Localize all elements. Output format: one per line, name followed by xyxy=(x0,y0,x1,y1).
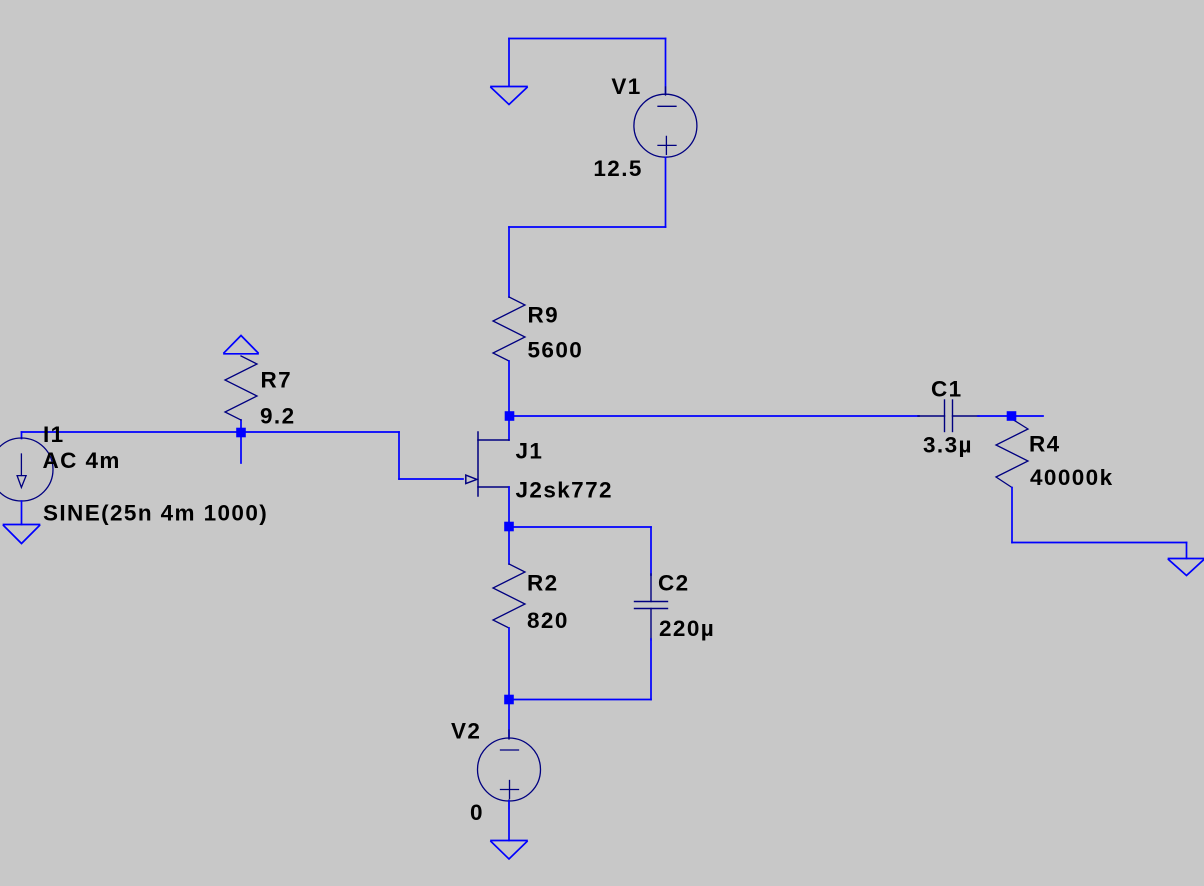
wire R4 bottom lead xyxy=(1011,488,1013,543)
junction drain node xyxy=(505,411,515,421)
wire I1 top lead xyxy=(21,432,23,439)
wire R9 top lead xyxy=(508,227,510,297)
svg-text:12.5: 12.5 xyxy=(593,156,642,181)
svg-text:9.2: 9.2 xyxy=(260,404,295,429)
resistor R9 xyxy=(493,297,525,361)
wire I1 bottom lead xyxy=(21,501,23,525)
svg-text:J1: J1 xyxy=(516,439,544,464)
wire bottom-right horizontal xyxy=(1012,542,1187,544)
svg-text:0: 0 xyxy=(470,800,484,825)
svg-text:R9: R9 xyxy=(528,303,560,328)
wire V1 bottom lead xyxy=(665,157,667,227)
svg-text:J2sk772: J2sk772 xyxy=(516,477,613,502)
ground top-left xyxy=(491,87,527,105)
wire C1 right to stub xyxy=(978,415,1043,417)
svg-text:40000k: 40000k xyxy=(1030,465,1113,490)
svg-text:C1: C1 xyxy=(931,377,963,402)
wire JFET drain vertical xyxy=(508,416,510,440)
svg-text:220µ: 220µ xyxy=(659,616,715,641)
svg-text:V1: V1 xyxy=(611,74,641,99)
resistor R4 xyxy=(996,419,1028,488)
svg-text:V2: V2 xyxy=(451,719,481,744)
wire R9 bottom lead xyxy=(508,361,510,416)
wire drain node horizontal xyxy=(509,415,919,417)
wire V1 to R9 horizontal xyxy=(509,226,666,228)
wire V2 top lead xyxy=(508,700,510,739)
resistor R7 xyxy=(225,356,257,420)
resistor R2 xyxy=(493,564,525,628)
wire right ground drop xyxy=(1186,543,1188,559)
svg-text:R2: R2 xyxy=(527,571,559,596)
svg-text:5600: 5600 xyxy=(528,338,584,363)
wire JFET source vertical xyxy=(508,487,510,527)
transistor J1 xyxy=(466,432,509,496)
svg-text:820: 820 xyxy=(527,608,569,633)
svg-text:I1: I1 xyxy=(43,422,65,447)
svg-text:R7: R7 xyxy=(261,368,293,393)
capacitor C1 xyxy=(918,400,979,432)
wire C2 bottom lead xyxy=(650,639,652,700)
svg-text:SINE(25n 4m 1000): SINE(25n 4m 1000) xyxy=(43,501,268,526)
ground under I1 xyxy=(4,525,40,544)
junction R2-C2-V2 node xyxy=(504,695,514,705)
svg-text:R4: R4 xyxy=(1029,432,1061,457)
wire top horizontal xyxy=(509,38,666,40)
junction C1-R4 node xyxy=(1007,411,1017,421)
wire V2 bottom lead xyxy=(508,801,510,841)
wire source node to C2 horizontal xyxy=(509,526,651,528)
wire R2 top lead xyxy=(508,527,510,564)
wire I1 top horizontal xyxy=(22,431,400,433)
wire gate vertical xyxy=(398,432,400,479)
voltage source V2 xyxy=(478,730,541,809)
svg-text:C2: C2 xyxy=(658,571,690,596)
wire R2 bottom lead xyxy=(508,628,510,700)
wire R7 bottom lead and stub xyxy=(240,420,242,463)
current source I1 xyxy=(0,438,53,501)
wire V1 top lead xyxy=(665,39,667,95)
wire top-left vertical xyxy=(508,39,510,87)
junction source node xyxy=(504,522,514,532)
wire C2 top lead xyxy=(650,527,652,575)
voltage source V1 xyxy=(634,87,697,157)
ground under V2 xyxy=(491,841,527,860)
capacitor C2 xyxy=(635,574,668,640)
svg-text:AC 4m: AC 4m xyxy=(43,448,121,473)
ground bottom-right xyxy=(1169,559,1204,576)
wire gate horizontal xyxy=(399,478,463,480)
svg-text:3.3µ: 3.3µ xyxy=(923,433,973,458)
wire C2 bottom horizontal xyxy=(509,699,651,701)
power flag above R7 (flipped ground) xyxy=(224,336,258,354)
junction I1-R7 node xyxy=(236,428,246,438)
